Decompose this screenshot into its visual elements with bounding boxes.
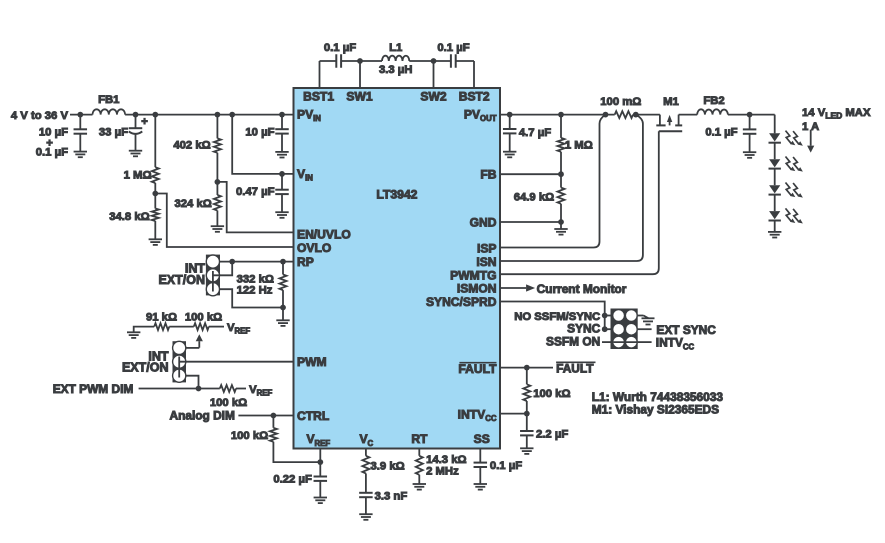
svg-text:EXT/ON: EXT/ON — [122, 360, 169, 374]
svg-text:FAULT: FAULT — [458, 362, 497, 376]
svg-text:M1: Vishay SI2365EDS: M1: Vishay SI2365EDS — [592, 402, 719, 416]
svg-text:+: + — [141, 116, 148, 128]
svg-text:FB1: FB1 — [98, 94, 119, 106]
svg-text:100 kΩ: 100 kΩ — [231, 430, 268, 442]
svg-text:FB: FB — [480, 167, 496, 181]
svg-text:SYNC: SYNC — [567, 322, 600, 336]
svg-text:10 µF: 10 µF — [245, 126, 274, 138]
svg-text:CTRL: CTRL — [297, 409, 330, 423]
svg-text:0.22 µF: 0.22 µF — [273, 474, 312, 486]
svg-text:3.9 kΩ: 3.9 kΩ — [371, 461, 405, 473]
svg-text:OVLO: OVLO — [297, 241, 331, 255]
svg-text:Analog DIM: Analog DIM — [169, 409, 234, 423]
svg-text:FAULT: FAULT — [556, 362, 594, 376]
svg-text:GND: GND — [470, 216, 497, 230]
svg-text:SW1: SW1 — [346, 89, 372, 103]
svg-text:Current Monitor: Current Monitor — [537, 282, 627, 296]
svg-text:ISMON: ISMON — [457, 282, 497, 296]
svg-text:SSFM ON: SSFM ON — [546, 335, 600, 349]
svg-text:91 kΩ: 91 kΩ — [146, 312, 177, 324]
svg-text:3.3 nF: 3.3 nF — [375, 490, 408, 502]
svg-text:0.1 µF: 0.1 µF — [490, 460, 522, 472]
svg-text:EXT SYNC: EXT SYNC — [656, 323, 716, 337]
svg-text:ISN: ISN — [476, 255, 496, 269]
svg-text:0.1 µF: 0.1 µF — [705, 127, 737, 139]
svg-text:PWMTG: PWMTG — [450, 268, 496, 282]
svg-text:SYNC/SPRD: SYNC/SPRD — [426, 295, 497, 309]
svg-text:4.7 µF: 4.7 µF — [519, 127, 551, 139]
svg-text:SW2: SW2 — [420, 89, 446, 103]
svg-text:33 µF: 33 µF — [99, 127, 128, 139]
svg-text:EXT/ON: EXT/ON — [158, 273, 205, 287]
svg-text:RT: RT — [411, 432, 428, 446]
svg-text:L1: L1 — [389, 42, 402, 54]
svg-text:1 MΩ: 1 MΩ — [565, 139, 593, 151]
svg-text:ISP: ISP — [477, 242, 497, 256]
svg-text:100 kΩ: 100 kΩ — [185, 312, 222, 324]
svg-text:2.2 µF: 2.2 µF — [536, 429, 568, 441]
svg-text:100 kΩ: 100 kΩ — [210, 397, 247, 409]
svg-text:BST1: BST1 — [303, 89, 334, 103]
svg-text:2 MHz: 2 MHz — [426, 466, 459, 478]
svg-text:100 kΩ: 100 kΩ — [533, 388, 570, 400]
svg-text:FB2: FB2 — [703, 95, 724, 107]
svg-text:M1: M1 — [663, 96, 679, 108]
svg-text:0.1 µF: 0.1 µF — [437, 42, 469, 54]
svg-text:0.47 µF: 0.47 µF — [236, 186, 275, 198]
svg-text:EN/UVLO: EN/UVLO — [297, 228, 351, 242]
svg-text:0.1 µF: 0.1 µF — [36, 146, 68, 158]
svg-text:3.3 µH: 3.3 µH — [379, 64, 413, 76]
svg-text:1 MΩ: 1 MΩ — [124, 170, 152, 182]
svg-text:4 V to 36 V: 4 V to 36 V — [11, 110, 69, 122]
svg-text:LT3942: LT3942 — [376, 188, 417, 202]
svg-text:SS: SS — [474, 432, 490, 446]
svg-text:EXT PWM DIM: EXT PWM DIM — [53, 382, 134, 396]
svg-text:RP: RP — [297, 255, 314, 269]
svg-text:PWM: PWM — [297, 355, 327, 369]
svg-text:402 kΩ: 402 kΩ — [173, 140, 210, 152]
svg-text:BST2: BST2 — [459, 89, 490, 103]
svg-text:122 Hz: 122 Hz — [237, 284, 273, 296]
svg-text:100 mΩ: 100 mΩ — [600, 96, 641, 108]
svg-text:34.8 kΩ: 34.8 kΩ — [109, 211, 149, 223]
svg-text:14.3 kΩ: 14.3 kΩ — [426, 454, 466, 466]
svg-text:10 µF: 10 µF — [39, 126, 68, 138]
svg-text:0.1 µF: 0.1 µF — [324, 42, 356, 54]
svg-text:64.9 kΩ: 64.9 kΩ — [514, 192, 554, 204]
svg-text:324 kΩ: 324 kΩ — [174, 198, 211, 210]
